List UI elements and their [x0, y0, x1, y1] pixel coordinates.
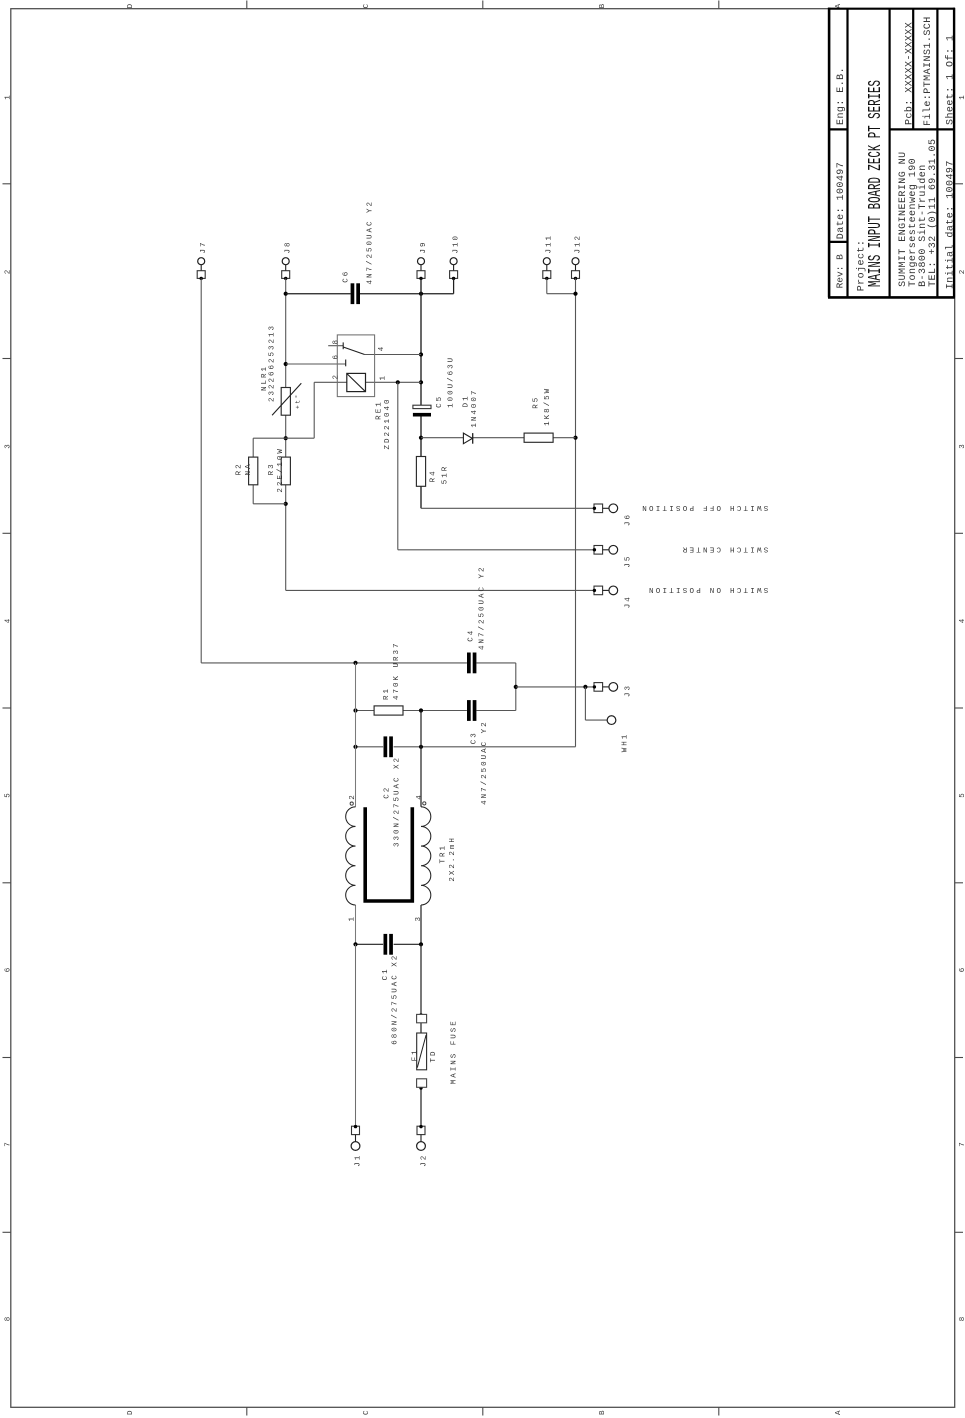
svg-text:+t°: +t° — [295, 393, 302, 409]
svg-text:MAINS FUSE: MAINS FUSE — [450, 1019, 458, 1084]
svg-text:J8: J8 — [285, 240, 293, 253]
svg-text:51R: 51R — [441, 465, 449, 485]
svg-text:7: 7 — [5, 1140, 13, 1147]
svg-text:3: 3 — [5, 442, 13, 449]
svg-text:SWITCH CENTER: SWITCH CENTER — [681, 544, 769, 552]
svg-text:SWITCH OFF POSITION: SWITCH OFF POSITION — [640, 503, 768, 511]
svg-text:SWITCH ON POSITION: SWITCH ON POSITION — [647, 585, 769, 593]
svg-text:1: 1 — [348, 915, 356, 922]
svg-text:C: C — [363, 1408, 371, 1415]
svg-text:J7: J7 — [200, 240, 208, 253]
svg-text:C3: C3 — [471, 731, 479, 744]
svg-text:R5: R5 — [533, 396, 541, 409]
svg-text:A: A — [835, 1408, 843, 1415]
svg-text:TEL: +32 (0)11 69.31.05: TEL: +32 (0)11 69.31.05 — [927, 139, 939, 287]
svg-text:1: 1 — [959, 93, 965, 100]
svg-text:1N4007: 1N4007 — [471, 389, 479, 428]
svg-text:4: 4 — [378, 345, 386, 352]
svg-text:3: 3 — [959, 442, 965, 449]
svg-text:4N7/250UAC Y2: 4N7/250UAC Y2 — [479, 565, 487, 650]
svg-text:WH1: WH1 — [622, 733, 630, 753]
svg-text:4: 4 — [5, 617, 13, 624]
svg-text:C6: C6 — [342, 270, 350, 283]
svg-text:B: B — [599, 2, 607, 9]
svg-text:J2: J2 — [420, 1154, 428, 1167]
svg-text:2X2.2mH: 2X2.2mH — [449, 836, 457, 882]
svg-text:C4: C4 — [467, 629, 475, 642]
svg-text:C2: C2 — [384, 786, 392, 799]
svg-text:100U/63U: 100U/63U — [448, 356, 456, 408]
svg-text:5: 5 — [5, 791, 13, 798]
svg-text:D: D — [127, 1408, 135, 1415]
svg-text:J12: J12 — [574, 234, 582, 254]
svg-text:TR1: TR1 — [440, 844, 448, 864]
svg-text:4N7/250UAC Y2: 4N7/250UAC Y2 — [481, 720, 489, 805]
svg-text:C5: C5 — [436, 395, 444, 408]
svg-text:2: 2 — [5, 268, 13, 275]
svg-text:2: 2 — [349, 793, 357, 800]
svg-text:MAINS INPUT BOARD ZECK PT SERI: MAINS INPUT BOARD ZECK PT SERIES — [866, 80, 886, 287]
svg-text:J4: J4 — [625, 595, 633, 608]
svg-text:Eng: E.B.: Eng: E.B. — [836, 67, 847, 125]
svg-text:R1: R1 — [383, 687, 391, 700]
svg-text:Sheet: 1 Of: 1: Sheet: 1 Of: 1 — [945, 35, 957, 125]
svg-text:ZD221040: ZD221040 — [384, 397, 392, 449]
svg-text:C1: C1 — [382, 967, 390, 980]
svg-text:470K UR37: 470K UR37 — [393, 641, 401, 700]
svg-text:8: 8 — [959, 1315, 965, 1322]
svg-text:A: A — [835, 2, 843, 9]
svg-text:D1: D1 — [462, 394, 470, 407]
svg-text:4: 4 — [959, 617, 965, 624]
svg-text:22E/10W: 22E/10W — [277, 447, 285, 493]
svg-text:6: 6 — [5, 966, 13, 973]
svg-text:J5: J5 — [625, 555, 633, 568]
svg-text:6: 6 — [959, 966, 965, 973]
svg-text:D: D — [127, 2, 135, 9]
svg-text:RE1: RE1 — [376, 400, 384, 420]
svg-text:J1: J1 — [355, 1154, 363, 1167]
svg-text:Initial date: 100497: Initial date: 100497 — [945, 160, 957, 289]
svg-text:6: 6 — [332, 353, 340, 360]
svg-text:R3: R3 — [268, 462, 276, 475]
svg-text:8: 8 — [5, 1315, 13, 1322]
svg-text:3: 3 — [415, 915, 423, 922]
svg-text:Pcb: XXXXX-XXXXX: Pcb: XXXXX-XXXXX — [903, 22, 915, 125]
svg-text:330N/275UAC X2: 330N/275UAC X2 — [394, 756, 402, 847]
svg-text:1: 1 — [5, 93, 13, 100]
svg-text:1K8/5W: 1K8/5W — [544, 387, 552, 426]
svg-text:232266253213: 232266253213 — [269, 324, 277, 402]
svg-text:J3: J3 — [625, 684, 633, 697]
svg-text:J9: J9 — [420, 240, 428, 253]
svg-text:8: 8 — [332, 338, 340, 345]
svg-text:4: 4 — [416, 793, 424, 800]
svg-text:F1: F1 — [411, 1048, 419, 1061]
svg-text:TD: TD — [430, 1049, 438, 1062]
svg-text:2: 2 — [333, 373, 341, 380]
svg-text:7: 7 — [959, 1140, 965, 1147]
svg-text:Rev: B: Rev: B — [835, 254, 846, 289]
svg-text:4N7/250UAC Y2: 4N7/250UAC Y2 — [367, 200, 375, 285]
svg-text:NA: NA — [245, 462, 253, 475]
svg-text:J10: J10 — [453, 234, 461, 254]
svg-text:R2: R2 — [236, 462, 244, 475]
svg-text:Date: 100497: Date: 100497 — [836, 162, 847, 239]
svg-text:R4: R4 — [430, 469, 438, 482]
svg-text:File:PTMAINS1.SCH: File:PTMAINS1.SCH — [922, 16, 934, 126]
svg-text:B: B — [599, 1408, 607, 1415]
svg-text:680N/275UAC X2: 680N/275UAC X2 — [391, 954, 399, 1045]
svg-text:J6: J6 — [625, 513, 633, 526]
svg-text:5: 5 — [959, 791, 965, 798]
svg-text:C: C — [363, 2, 371, 9]
svg-text:J11: J11 — [546, 234, 554, 254]
svg-text:1: 1 — [379, 374, 387, 381]
svg-text:2: 2 — [959, 268, 965, 275]
